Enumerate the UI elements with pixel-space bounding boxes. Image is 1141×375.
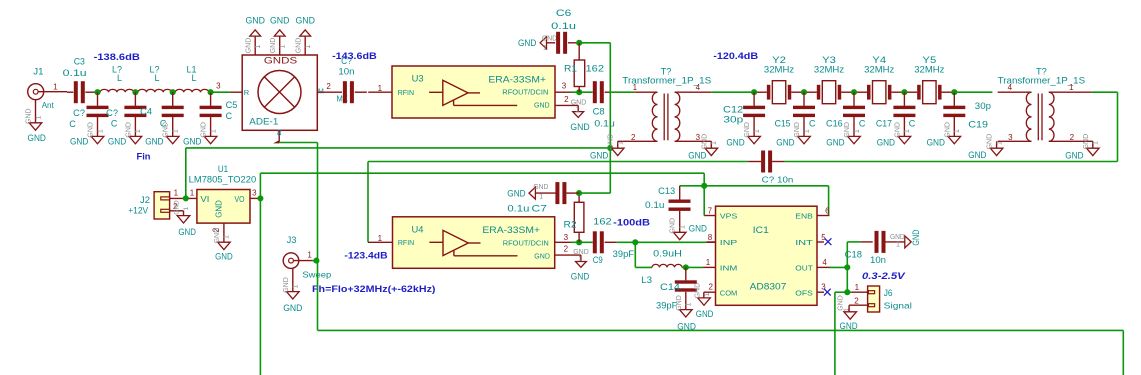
svg-text:-123.4dB: -123.4dB — [344, 251, 388, 261]
svg-text:GND: GND — [794, 122, 801, 138]
svg-text:GND: GND — [533, 184, 548, 191]
svg-text:0.9uH: 0.9uH — [653, 249, 682, 259]
svg-text:32MHz: 32MHz — [914, 65, 945, 75]
svg-text:32MHz: 32MHz — [814, 65, 845, 75]
svg-text:2: 2 — [212, 227, 221, 232]
svg-text:GND: GND — [571, 272, 590, 282]
svg-text:R2: R2 — [564, 219, 577, 229]
svg-text:C: C — [226, 111, 233, 121]
svg-text:7: 7 — [708, 207, 713, 216]
svg-text:2: 2 — [854, 296, 859, 305]
svg-text:1: 1 — [305, 44, 312, 48]
svg-text:1: 1 — [804, 129, 811, 133]
svg-text:8: 8 — [708, 233, 713, 242]
svg-text:GND: GND — [608, 134, 615, 150]
svg-text:GND: GND — [245, 15, 265, 25]
svg-text:GND: GND — [911, 229, 921, 245]
svg-text:GND: GND — [125, 122, 132, 138]
svg-text:GND: GND — [968, 150, 987, 160]
svg-text:GND: GND — [987, 134, 994, 150]
svg-text:RFOUT/DCIN: RFOUT/DCIN — [503, 238, 549, 247]
svg-text:GND: GND — [840, 321, 859, 331]
svg-text:INP: INP — [720, 238, 738, 247]
svg-text:GND: GND — [694, 283, 701, 299]
svg-text:30p: 30p — [975, 101, 991, 111]
svg-text:GND: GND — [215, 200, 224, 218]
svg-text:1: 1 — [996, 141, 1003, 145]
svg-text:C: C — [69, 119, 76, 129]
svg-text:GND: GND — [726, 137, 745, 147]
svg-text:GND: GND — [670, 218, 677, 234]
svg-text:39pF: 39pF — [656, 300, 678, 310]
svg-text:GND: GND — [570, 122, 590, 132]
svg-text:GND: GND — [108, 137, 127, 147]
svg-text:1: 1 — [279, 44, 286, 48]
svg-text:C: C — [809, 119, 816, 129]
svg-text:1: 1 — [210, 129, 217, 133]
svg-text:J6: J6 — [884, 288, 893, 298]
svg-text:Transformer_1P_1S: Transformer_1P_1S — [998, 76, 1085, 86]
svg-text:ERA-33SM+: ERA-33SM+ — [488, 74, 546, 84]
svg-text:GND: GND — [270, 38, 277, 54]
svg-text:C13: C13 — [658, 186, 675, 196]
svg-text:GND: GND — [183, 137, 202, 147]
svg-text:R: R — [244, 88, 250, 97]
svg-text:OUT: OUT — [795, 264, 813, 273]
svg-text:-143.6dB: -143.6dB — [332, 51, 377, 61]
svg-text:J1: J1 — [33, 66, 43, 76]
svg-text:GND: GND — [201, 122, 208, 138]
svg-text:1: 1 — [754, 129, 761, 133]
svg-text:GND: GND — [844, 122, 851, 138]
svg-text:162: 162 — [593, 217, 612, 227]
svg-text:C16: C16 — [826, 119, 843, 129]
svg-text:C9: C9 — [593, 255, 603, 265]
svg-text:GND: GND — [890, 234, 905, 241]
svg-text:GND: GND — [744, 122, 751, 138]
svg-text:C12: C12 — [723, 104, 743, 114]
svg-text:GND: GND — [776, 137, 795, 147]
svg-text:0.1u: 0.1u — [594, 119, 614, 129]
svg-text:1: 1 — [293, 284, 300, 288]
svg-text:5: 5 — [821, 233, 826, 242]
svg-text:10n: 10n — [870, 255, 886, 265]
svg-text:J3: J3 — [287, 235, 297, 245]
svg-text:C?: C? — [73, 108, 85, 118]
svg-text:OFS: OFS — [795, 288, 813, 297]
svg-text:GNDS: GNDS — [264, 56, 297, 66]
svg-text:GND: GND — [70, 137, 89, 147]
svg-text:1: 1 — [896, 242, 900, 249]
svg-text:GND: GND — [696, 309, 714, 319]
svg-text:C14: C14 — [660, 282, 680, 292]
svg-text:1: 1 — [135, 129, 142, 133]
svg-text:GND: GND — [894, 122, 901, 138]
svg-text:0.1u: 0.1u — [507, 203, 529, 213]
svg-text:1: 1 — [576, 106, 580, 113]
svg-text:3: 3 — [562, 81, 567, 90]
svg-text:1: 1 — [224, 235, 231, 239]
svg-text:RFOUT/DCIN: RFOUT/DCIN — [502, 87, 548, 96]
svg-text:1: 1 — [711, 141, 718, 145]
svg-text:L3: L3 — [641, 275, 652, 285]
svg-text:J2: J2 — [140, 195, 150, 205]
svg-text:C: C — [859, 119, 866, 129]
svg-text:1: 1 — [307, 251, 312, 260]
svg-text:C4: C4 — [140, 107, 152, 117]
svg-text:L: L — [191, 73, 196, 83]
svg-text:GND: GND — [174, 200, 181, 215]
svg-text:Signal: Signal — [884, 300, 912, 310]
svg-text:L: L — [154, 73, 159, 83]
svg-text:C6: C6 — [556, 8, 571, 18]
svg-text:GND: GND — [542, 35, 557, 42]
svg-text:GND: GND — [507, 188, 526, 198]
svg-text:2: 2 — [564, 244, 569, 253]
svg-text:1: 1 — [854, 129, 861, 133]
svg-text:GND: GND — [178, 227, 196, 237]
svg-text:3: 3 — [1008, 133, 1013, 142]
svg-text:GND: GND — [270, 15, 290, 25]
svg-text:C: C — [909, 119, 916, 129]
svg-text:1: 1 — [35, 116, 42, 120]
svg-text:1: 1 — [686, 302, 693, 306]
svg-text:GND: GND — [944, 122, 951, 138]
svg-text:GND: GND — [215, 252, 233, 262]
svg-text:C17: C17 — [876, 119, 892, 129]
svg-text:GND: GND — [295, 38, 302, 54]
svg-text:C? 10n: C? 10n — [762, 174, 794, 184]
svg-text:Y4: Y4 — [872, 55, 886, 65]
svg-text:GND: GND — [295, 15, 315, 25]
svg-text:C15: C15 — [775, 119, 791, 129]
svg-text:GND: GND — [534, 251, 550, 260]
svg-text:1: 1 — [543, 45, 547, 52]
svg-text:1: 1 — [53, 83, 58, 92]
svg-text:2: 2 — [326, 82, 331, 91]
svg-text:1: 1 — [174, 188, 179, 197]
svg-text:1: 1 — [954, 129, 961, 133]
svg-text:1: 1 — [855, 283, 860, 292]
svg-text:GND: GND — [590, 150, 609, 160]
svg-text:VO: VO — [235, 195, 245, 204]
svg-text:GND: GND — [283, 303, 303, 313]
svg-text:2: 2 — [564, 95, 569, 104]
svg-text:2: 2 — [1070, 133, 1075, 142]
svg-text:GND: GND — [283, 277, 290, 293]
svg-text:GND: GND — [1065, 151, 1084, 161]
svg-text:L: L — [117, 73, 122, 83]
svg-text:GND: GND — [518, 38, 537, 48]
svg-text:GND: GND — [677, 322, 696, 332]
svg-text:1: 1 — [1093, 141, 1100, 145]
svg-text:Fh=Flo+32MHz(+-62kHz): Fh=Flo+32MHz(+-62kHz) — [312, 284, 436, 294]
svg-text:1: 1 — [255, 44, 262, 48]
svg-text:GND: GND — [145, 137, 164, 147]
svg-text:Ant: Ant — [42, 101, 55, 110]
svg-text:3: 3 — [564, 233, 569, 242]
svg-text:IC1: IC1 — [753, 225, 769, 235]
svg-text:-100dB: -100dB — [613, 218, 650, 228]
svg-text:U4: U4 — [412, 225, 424, 235]
svg-text:ENB: ENB — [795, 212, 813, 221]
svg-text:GND: GND — [88, 122, 95, 138]
svg-text:4: 4 — [822, 258, 827, 267]
svg-text:1: 1 — [539, 194, 543, 201]
svg-text:1: 1 — [704, 292, 711, 296]
svg-text:LM7805_TO220: LM7805_TO220 — [189, 175, 257, 185]
svg-text:COM: COM — [720, 288, 738, 297]
svg-text:1: 1 — [680, 225, 687, 229]
svg-text:C8: C8 — [593, 107, 605, 117]
svg-text:0.1u: 0.1u — [645, 200, 665, 210]
svg-text:GND: GND — [689, 224, 708, 234]
svg-text:2: 2 — [631, 133, 636, 142]
svg-text:-138.6dB: -138.6dB — [94, 52, 141, 62]
svg-text:R1: R1 — [564, 63, 577, 73]
svg-text:GND: GND — [688, 151, 707, 161]
svg-text:1: 1 — [378, 84, 383, 93]
svg-text:0.1u: 0.1u — [551, 21, 576, 31]
svg-text:32MHz: 32MHz — [764, 65, 795, 75]
svg-text:0.3-2.5V: 0.3-2.5V — [862, 271, 906, 281]
svg-text:1: 1 — [378, 234, 383, 243]
svg-text:30p: 30p — [723, 115, 743, 125]
svg-text:VI: VI — [200, 195, 209, 204]
svg-text:C: C — [160, 118, 167, 128]
svg-text:GND: GND — [26, 108, 33, 124]
svg-text:1: 1 — [844, 308, 851, 312]
svg-text:8: 8 — [277, 129, 282, 138]
svg-text:2: 2 — [708, 283, 713, 292]
svg-text:1: 1 — [904, 129, 911, 133]
svg-text:GND: GND — [826, 137, 845, 147]
svg-text:U1: U1 — [218, 164, 228, 174]
svg-text:RFIN: RFIN — [398, 238, 414, 247]
svg-text:Fin: Fin — [137, 152, 151, 163]
svg-text:C19: C19 — [968, 119, 988, 129]
svg-text:INM: INM — [720, 264, 738, 273]
svg-text:-120.4dB: -120.4dB — [713, 51, 758, 61]
svg-text:GND: GND — [245, 38, 252, 54]
svg-text:GND: GND — [927, 137, 946, 147]
svg-text:10n: 10n — [338, 67, 354, 77]
svg-text:VPS: VPS — [720, 212, 738, 221]
svg-text:GND: GND — [28, 133, 47, 143]
svg-text:INT: INT — [795, 238, 813, 247]
svg-text:39pF: 39pF — [613, 249, 635, 259]
svg-text:1: 1 — [183, 206, 190, 210]
svg-text:3: 3 — [696, 133, 701, 142]
svg-text:GND: GND — [877, 137, 896, 147]
svg-text:AD8307: AD8307 — [750, 281, 787, 291]
svg-text:1: 1 — [706, 258, 711, 267]
svg-text:1: 1 — [97, 129, 104, 133]
svg-text:ADE-1: ADE-1 — [249, 117, 278, 127]
svg-text:C18: C18 — [845, 250, 862, 260]
svg-text:C7: C7 — [532, 203, 547, 213]
svg-text:C5: C5 — [226, 100, 238, 110]
svg-text:C3: C3 — [74, 57, 85, 67]
svg-text:GND: GND — [1083, 134, 1090, 150]
svg-text:C: C — [111, 119, 118, 129]
svg-text:0.1u: 0.1u — [63, 68, 87, 78]
svg-text:GND: GND — [534, 101, 550, 110]
svg-text:32MHz: 32MHz — [864, 65, 895, 75]
svg-text:ERA-33SM+: ERA-33SM+ — [482, 225, 540, 235]
svg-text:C?: C? — [106, 108, 118, 118]
svg-text:1: 1 — [173, 129, 180, 133]
svg-text:+12V: +12V — [128, 205, 148, 215]
svg-text:3: 3 — [216, 82, 221, 91]
svg-text:Y2: Y2 — [772, 55, 786, 65]
svg-text:1: 1 — [618, 141, 625, 145]
svg-text:1: 1 — [578, 256, 582, 263]
svg-text:162: 162 — [586, 63, 605, 73]
svg-text:3: 3 — [252, 189, 257, 198]
svg-text:1: 1 — [190, 188, 195, 197]
svg-text:6: 6 — [825, 206, 830, 215]
svg-text:GND: GND — [573, 249, 589, 256]
svg-text:Y3: Y3 — [822, 55, 836, 65]
svg-text:Transformer_1P_1S: Transformer_1P_1S — [622, 76, 711, 86]
svg-text:Y5: Y5 — [922, 55, 936, 65]
svg-text:U3: U3 — [412, 74, 424, 84]
svg-text:GND: GND — [701, 134, 708, 150]
svg-text:RFIN: RFIN — [398, 88, 414, 97]
